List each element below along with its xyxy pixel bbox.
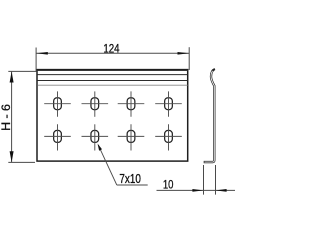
dimension H-6 extension line top [8, 70, 36, 72]
dimension 10 arrow right (points left) [216, 189, 227, 192]
hole r1c3 [118, 91, 145, 116]
bend line 1 [37, 74, 187, 76]
dimension 124 extension line left [35, 48, 37, 72]
dimension H-6 extension line bottom [8, 161, 35, 163]
plate front view outline [37, 70, 188, 162]
dimension 124 line [36, 52, 189, 54]
leader line 7x10 [98, 145, 117, 185]
leader underline [117, 184, 148, 186]
svg-text:10: 10 [163, 177, 174, 191]
dimension H-6 arrow down [10, 151, 14, 162]
hole r2c4 [155, 124, 182, 150]
hole r1c2 [82, 91, 109, 116]
svg-text:H - 6: H - 6 [0, 104, 13, 131]
bend line 3 (faint) [37, 84, 187, 86]
svg-text:124: 124 [103, 42, 119, 56]
dimension 124 arrow right [178, 52, 190, 55]
hole r1c4 [155, 91, 182, 116]
hole r2c1 [44, 124, 71, 150]
dimension 124 extension line right [188, 47, 190, 70]
dimension 10 line [157, 189, 236, 191]
svg-text:7x10: 7x10 [119, 172, 140, 186]
hole r1c1 [44, 91, 71, 116]
hole r2c2 [82, 124, 109, 150]
dimension H-6 line [11, 72, 13, 163]
side profile sheet section (white core) [204, 71, 214, 162]
dimension H-6 arrow up [10, 72, 14, 83]
dimension 124 arrow left [36, 52, 48, 55]
dimension 10 extension line right [215, 165, 217, 195]
bend line 2 [37, 80, 187, 82]
dimension 10 arrow left (points right) [192, 189, 203, 192]
hem edge line [37, 70, 187, 72]
dimension 10 extension line left [203, 165, 205, 195]
leader arrowhead [98, 144, 102, 151]
side profile sheet section (outer stroke) [204, 69, 215, 162]
hole r2c3 [118, 124, 145, 150]
